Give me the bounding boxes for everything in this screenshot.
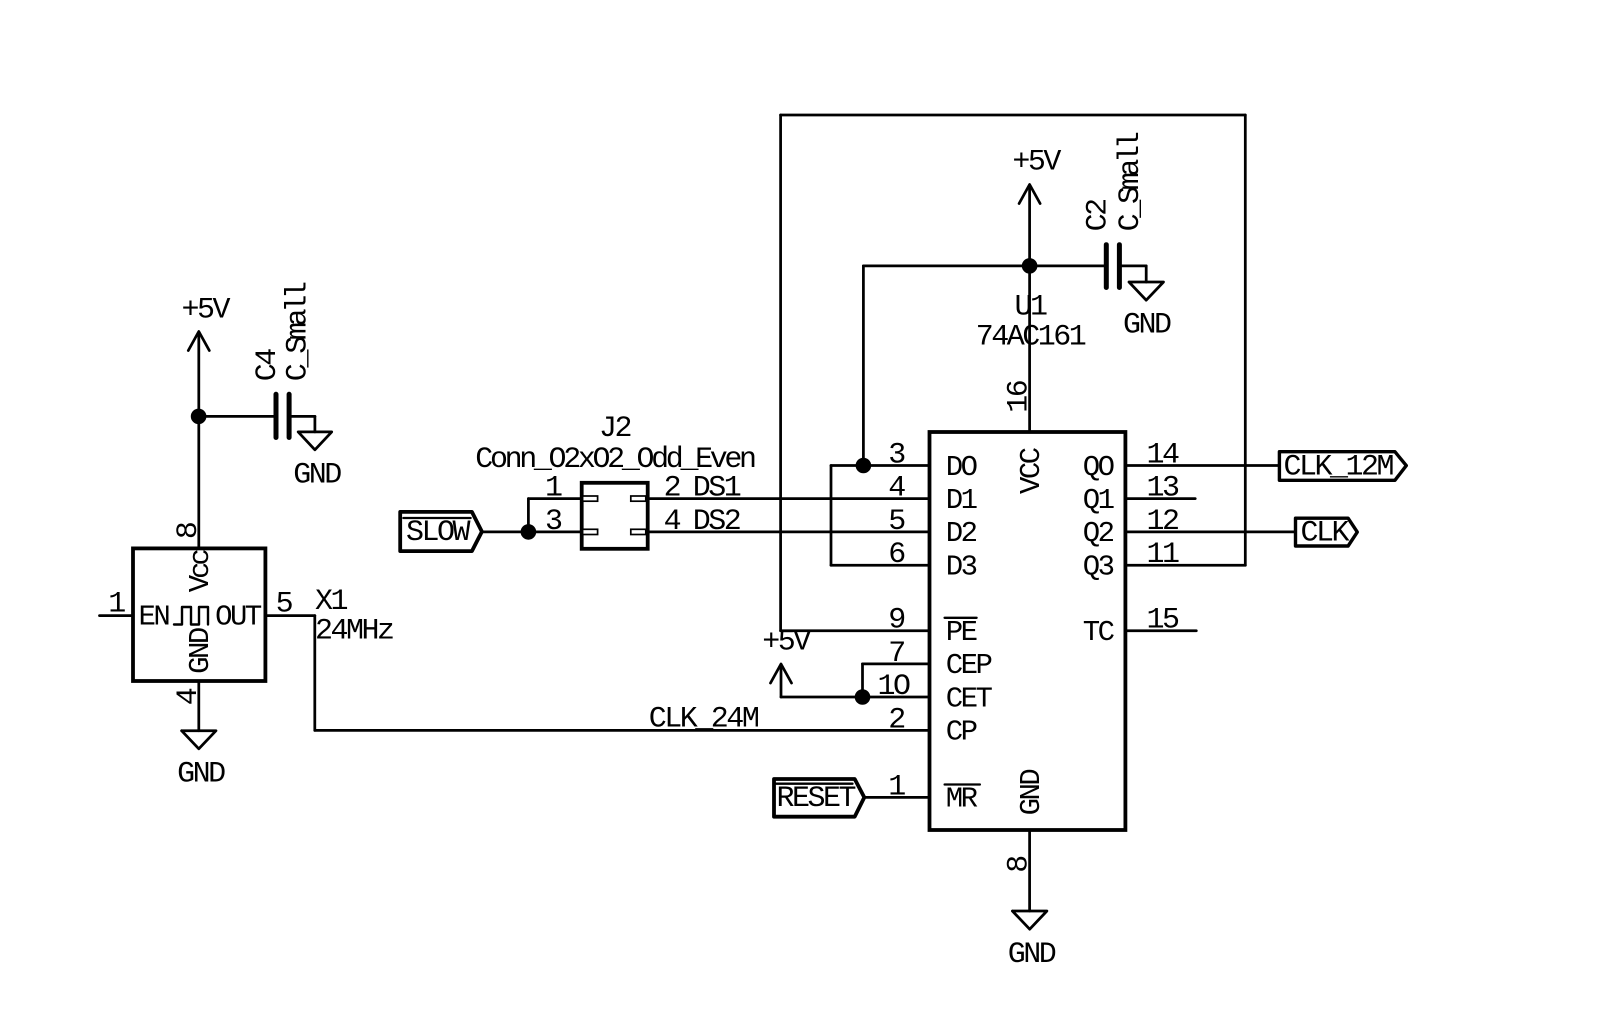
svg-text:Q1: Q1 (1083, 484, 1114, 517)
svg-text:11: 11 (1146, 538, 1179, 572)
svg-text:GND: GND (177, 757, 225, 791)
svg-text:CLK_12M: CLK_12M (1284, 451, 1394, 485)
svg-text:Q2: Q2 (1083, 517, 1114, 550)
svg-text:+5V: +5V (1012, 146, 1061, 180)
svg-text:+5V: +5V (182, 293, 231, 327)
svg-text:12: 12 (1146, 505, 1178, 539)
svg-text:14: 14 (1146, 439, 1179, 473)
svg-text:1: 1 (545, 472, 562, 506)
svg-text:DS1: DS1 (693, 472, 741, 506)
svg-text:CLK_24M: CLK_24M (649, 702, 759, 736)
svg-text:OUT: OUT (215, 601, 262, 634)
svg-text:C4: C4 (251, 349, 285, 382)
svg-text:TC: TC (1083, 616, 1115, 649)
svg-text:3: 3 (888, 439, 905, 473)
svg-text:16: 16 (1003, 380, 1037, 413)
svg-text:J2: J2 (599, 412, 631, 446)
svg-text:13: 13 (1146, 472, 1179, 506)
svg-text:D2: D2 (946, 517, 977, 550)
svg-text:8: 8 (172, 522, 206, 539)
svg-text:U1: U1 (1014, 291, 1047, 325)
svg-text:24MHz: 24MHz (315, 615, 393, 649)
svg-text:CP: CP (946, 716, 977, 749)
svg-text:PE: PE (946, 616, 977, 649)
svg-text:QO: QO (1083, 451, 1114, 484)
svg-text:Q3: Q3 (1083, 551, 1114, 584)
svg-text:CLK: CLK (1301, 517, 1350, 551)
svg-text:DS2: DS2 (693, 505, 740, 539)
svg-text:4: 4 (888, 472, 905, 506)
svg-text:5: 5 (888, 505, 905, 539)
svg-text:MR: MR (946, 783, 978, 816)
svg-text:1: 1 (888, 770, 905, 804)
svg-text:VCC: VCC (1015, 447, 1048, 494)
svg-text:2: 2 (888, 703, 904, 737)
svg-text:D1: D1 (946, 484, 977, 517)
svg-text:9: 9 (888, 604, 904, 638)
svg-text:CET: CET (946, 682, 993, 715)
svg-text:D3: D3 (946, 551, 977, 584)
svg-text:GND: GND (1008, 938, 1056, 972)
svg-text:7: 7 (888, 637, 904, 671)
svg-text:5: 5 (276, 588, 293, 622)
svg-text:C_Small: C_Small (282, 282, 316, 381)
svg-text:GND: GND (1123, 309, 1171, 343)
svg-text:1: 1 (108, 588, 125, 622)
svg-text:DO: DO (946, 451, 977, 484)
svg-text:4: 4 (664, 505, 681, 539)
svg-text:GND: GND (1015, 770, 1048, 816)
svg-text:4: 4 (172, 688, 206, 705)
svg-text:6: 6 (888, 538, 905, 572)
svg-text:RESET: RESET (777, 782, 856, 816)
svg-text:74AC161: 74AC161 (976, 321, 1086, 355)
svg-text:GND: GND (184, 628, 217, 674)
svg-text:EN: EN (139, 601, 170, 634)
svg-text:Vcc: Vcc (184, 549, 217, 592)
svg-text:CEP: CEP (946, 649, 992, 682)
svg-text:SLOW: SLOW (406, 516, 471, 550)
svg-text:8: 8 (1003, 856, 1037, 873)
svg-text:GND: GND (293, 459, 341, 493)
svg-text:C2: C2 (1082, 200, 1116, 232)
svg-text:+5V: +5V (762, 626, 811, 660)
svg-text:3: 3 (545, 505, 562, 539)
svg-text:1O: 1O (877, 670, 910, 704)
svg-text:C_Small: C_Small (1114, 132, 1148, 231)
svg-text:15: 15 (1146, 604, 1179, 638)
svg-text:2: 2 (664, 472, 680, 506)
